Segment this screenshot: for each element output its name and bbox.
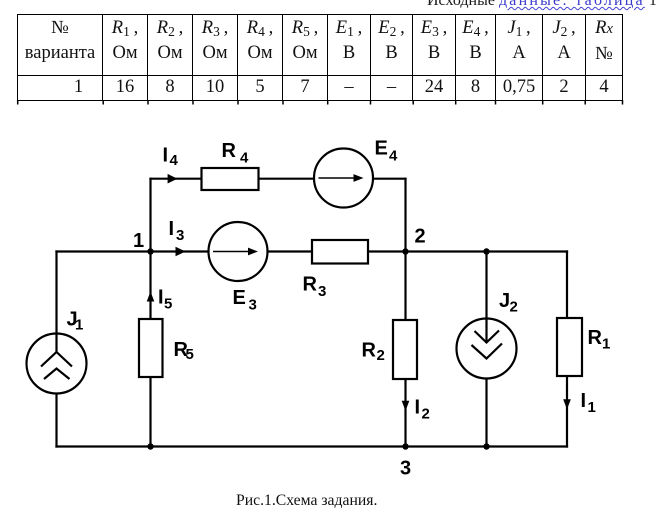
wire: R2 branch vertical (node 2 to bottom rail) xyxy=(404,252,406,447)
cropped heading line "Исходные данные: таблица 1" xyxy=(427,0,657,10)
wire: bottom rail horizontal xyxy=(57,445,568,447)
E4 internal arrowhead xyxy=(354,174,364,182)
J2 internal lead segment xyxy=(485,319,487,342)
node 2 junction dot xyxy=(402,248,408,254)
current source J1 body xyxy=(27,334,87,394)
svg-text:1: 1 xyxy=(133,230,144,252)
svg-text:2: 2 xyxy=(422,406,430,423)
svg-text:I: I xyxy=(581,390,587,412)
svg-text:1: 1 xyxy=(602,336,610,353)
svg-text:3: 3 xyxy=(400,458,411,480)
svg-text:I: I xyxy=(158,287,164,309)
svg-text:1: 1 xyxy=(75,317,83,334)
wire: R5 branch vertical (node 1 to bottom rail) xyxy=(149,252,151,447)
wire: R1 branch vertical (right corner to bottom rail) xyxy=(566,252,568,447)
svg-text:1: 1 xyxy=(588,399,596,416)
current arrow I3 xyxy=(176,247,186,257)
svg-text:I: I xyxy=(169,218,175,240)
svg-text:R: R xyxy=(362,340,377,362)
svg-text:2: 2 xyxy=(510,299,518,316)
wire: J2 branch vertical xyxy=(485,252,487,447)
junction dot bottom rail / R5 branch xyxy=(147,443,153,449)
svg-text:4: 4 xyxy=(170,152,179,169)
svg-text:E: E xyxy=(233,287,246,309)
E4 internal arrow shaft xyxy=(319,177,356,179)
svg-text:E: E xyxy=(375,138,388,160)
current arrow I2 xyxy=(402,401,410,411)
J2 chevron (outer, pointing down) xyxy=(475,331,500,343)
svg-text:5: 5 xyxy=(186,346,194,363)
svg-text:2: 2 xyxy=(415,226,426,248)
voltage source E4 body xyxy=(314,149,373,208)
svg-text:3: 3 xyxy=(249,297,257,314)
svg-text:5: 5 xyxy=(164,296,172,313)
resistor R5 body xyxy=(139,319,163,377)
svg-text:I: I xyxy=(415,397,421,419)
J1 chevron (outer, pointing up) xyxy=(41,352,72,367)
J1 chevron (inner, pointing up) xyxy=(44,369,70,380)
svg-text:R: R xyxy=(222,140,237,162)
junction dot middle rail / J2 branch xyxy=(483,248,489,254)
J1 internal lead segment xyxy=(55,334,57,353)
svg-text:3: 3 xyxy=(318,283,326,300)
current arrow I4 xyxy=(168,174,178,184)
junction dot bottom rail / J2 branch xyxy=(483,443,489,449)
svg-text:2: 2 xyxy=(377,347,385,364)
data table (variant parameters) xyxy=(17,14,623,102)
wire: middle rail horizontal (left corner through node 1, node 2 to right corner) xyxy=(57,250,568,252)
E3 internal arrowhead xyxy=(248,248,258,256)
svg-text:R: R xyxy=(303,274,318,296)
resistor R4 body xyxy=(202,168,259,190)
svg-text:J: J xyxy=(499,290,510,312)
svg-text:R: R xyxy=(588,327,603,349)
resistor R1 body xyxy=(557,318,582,376)
wire: riser from node 1 up to top rail xyxy=(149,179,151,252)
svg-text:4: 4 xyxy=(389,148,398,165)
J2 chevron (inner, pointing down) xyxy=(472,344,503,359)
figure caption xyxy=(236,492,377,510)
resistor R3 body xyxy=(312,240,368,264)
E3 internal arrow shaft xyxy=(213,251,250,253)
current source J2 body xyxy=(457,319,517,379)
svg-text:I: I xyxy=(163,145,169,167)
table next-row border stubs (cropped row below table) xyxy=(18,100,623,105)
current arrow I1 xyxy=(563,399,571,409)
wire: drop from E4 corner down to node 2 xyxy=(404,179,406,252)
node 3 junction dot xyxy=(402,443,408,449)
node 1 junction dot xyxy=(147,248,153,254)
wire: top rail horizontal (node1 riser to E4 corner) xyxy=(151,178,406,180)
resistor R2 body xyxy=(393,320,417,379)
svg-text:3: 3 xyxy=(176,227,184,244)
current arrow I5 xyxy=(147,292,155,302)
svg-text:4: 4 xyxy=(240,150,249,167)
voltage source E3 body xyxy=(209,222,268,281)
wire: left branch vertical through J1 xyxy=(55,252,57,447)
